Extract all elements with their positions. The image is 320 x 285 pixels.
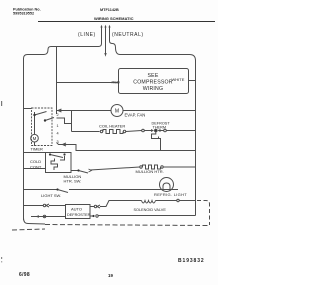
svg-text:4: 4 xyxy=(57,132,59,136)
svg-text:THERM: THERM xyxy=(153,125,167,129)
svg-text:MTF1142B: MTF1142B xyxy=(100,8,119,12)
svg-text:M: M xyxy=(115,109,119,115)
svg-text:SEE: SEE xyxy=(148,73,159,79)
svg-text:5995319552: 5995319552 xyxy=(13,12,34,16)
svg-text:COMPRESSOR: COMPRESSOR xyxy=(133,79,173,85)
svg-text:REFRIG. LIGHT: REFRIG. LIGHT xyxy=(154,192,187,197)
svg-text:AUTO: AUTO xyxy=(71,207,82,212)
svg-text:19: 19 xyxy=(108,273,113,278)
svg-text:1: 1 xyxy=(57,124,59,128)
svg-text:2: 2 xyxy=(57,113,59,117)
svg-text:WIRING: WIRING xyxy=(143,86,164,92)
svg-text:WIRING SCHEMATIC: WIRING SCHEMATIC xyxy=(94,16,134,21)
svg-text:TIMER: TIMER xyxy=(31,147,44,152)
svg-text:B193832: B193832 xyxy=(178,258,205,264)
svg-text:COIL HEATER: COIL HEATER xyxy=(99,124,125,129)
svg-text:(LINE): (LINE) xyxy=(78,32,96,38)
svg-text:SOLENOID VALVE: SOLENOID VALVE xyxy=(134,208,167,212)
svg-text:(NEUTRAL): (NEUTRAL) xyxy=(112,32,144,38)
svg-text:DEFROSTER: DEFROSTER xyxy=(67,213,91,217)
svg-text:EVAP. FAN: EVAP. FAN xyxy=(125,113,146,118)
svg-text:M: M xyxy=(33,136,37,141)
svg-text:6/98: 6/98 xyxy=(19,272,30,278)
svg-text:COLD: COLD xyxy=(30,159,41,164)
svg-text:HTR. SW.: HTR. SW. xyxy=(64,179,82,184)
svg-text:WHITE: WHITE xyxy=(172,77,185,82)
svg-text:MULLION HTR.: MULLION HTR. xyxy=(136,169,164,174)
svg-text:CONT.: CONT. xyxy=(30,164,42,169)
svg-text:LIGHT SW.: LIGHT SW. xyxy=(41,193,61,198)
